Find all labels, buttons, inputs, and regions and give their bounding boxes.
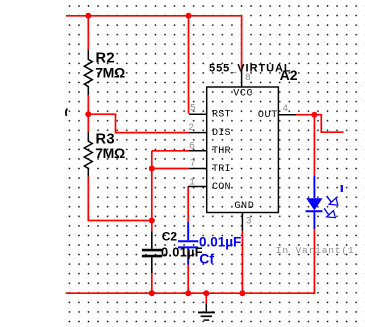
pin stub VCC (8) [241, 70, 243, 87]
junction TRI [149, 166, 155, 172]
junction rail ground [203, 290, 209, 296]
LED arrow 1 [327, 196, 332, 203]
svg-text:CON: CON [212, 182, 231, 193]
svg-text:0.01µF: 0.01µF [161, 244, 203, 259]
svg-text:TRI: TRI [212, 164, 231, 175]
wire THR horizontal [152, 150, 189, 152]
wire C2 bottom [151, 273, 153, 293]
svg-text:3: 3 [246, 216, 252, 227]
capacitor C2 [142, 231, 162, 273]
pin stub GND [241, 213, 243, 232]
wire R3 bottom corner to C2 junction [88, 177, 152, 221]
svg-text:A2: A2 [280, 67, 298, 83]
stray text mark at left edge [66, 109, 68, 116]
wire OUT net [296, 115, 344, 133]
svg-text:6: 6 [189, 140, 195, 151]
LED (selected, blue) [306, 176, 343, 229]
wire DIS from junction [88, 114, 189, 132]
capacitor Cf (selected, blue) [178, 222, 198, 265]
svg-text:1: 1 [189, 176, 195, 187]
svg-text:OUT: OUT [258, 110, 278, 121]
svg-text:4: 4 [282, 103, 288, 114]
svg-text:7: 7 [190, 158, 196, 169]
wire Cf bottom [187, 265, 189, 293]
pin stub DIS [189, 132, 207, 134]
junction top rail RST [186, 13, 192, 19]
svg-text:THR: THR [212, 146, 231, 157]
svg-text:2: 2 [188, 122, 194, 133]
svg-text:7MΩ: 7MΩ [95, 145, 125, 161]
wire CON vertical [187, 187, 189, 222]
junction rail Cf [185, 290, 191, 296]
wire R2 top [87, 16, 89, 50]
svg-text:VCC: VCC [233, 89, 253, 100]
svg-text:RST: RST [212, 110, 231, 121]
svg-text:0.01µF: 0.01µF [199, 234, 241, 249]
wire THR-C2 vertical [151, 151, 153, 232]
pin stub OUT [278, 114, 296, 116]
junction OUT LED [311, 112, 317, 118]
wire top rail [66, 16, 242, 70]
wire R2 bottom to junction [87, 95, 89, 132]
wire bottom rail [66, 292, 316, 294]
wire LED bottom [313, 229, 315, 294]
pin stub THR [189, 150, 207, 152]
ground [198, 293, 215, 320]
wire TRI horizontal [152, 168, 189, 170]
pin stub RST [189, 113, 207, 115]
junction R2 R3 DIS [85, 111, 91, 117]
svg-text:8: 8 [245, 72, 251, 83]
resistor R3 [84, 132, 92, 177]
selection handle I [341, 185, 343, 192]
svg-text:GND: GND [234, 201, 254, 212]
svg-text:DIS: DIS [212, 128, 231, 139]
pin stub CON [188, 186, 207, 188]
junction top rail R2 [85, 13, 91, 19]
svg-text:7MΩ: 7MΩ [95, 65, 125, 81]
junction rail GND pin [239, 290, 245, 296]
LED arrow 2 [324, 208, 329, 215]
svg-text:In Variant(1: In Variant(1 [276, 245, 355, 256]
junction C2 top [149, 218, 155, 224]
junction rail C2 [149, 290, 155, 296]
wire LED top [313, 115, 315, 176]
wire RST vertical [188, 16, 190, 114]
svg-text:C2: C2 [162, 230, 178, 244]
wire GND pin to rail [241, 231, 243, 293]
resistor R2 [84, 50, 92, 95]
svg-text:5: 5 [190, 103, 196, 114]
IC A2 555_VIRTUAL body [207, 87, 279, 213]
pin stub TRI [189, 168, 207, 170]
